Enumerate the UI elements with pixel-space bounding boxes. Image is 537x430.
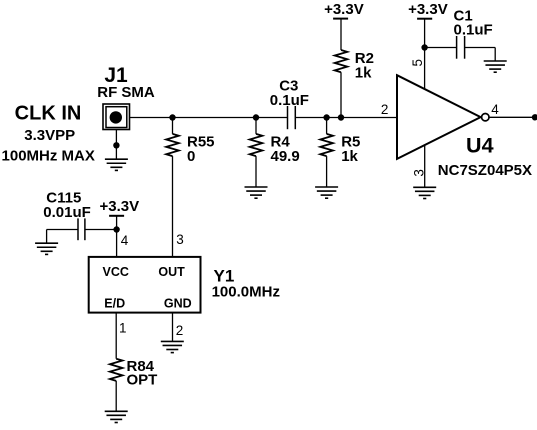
- svg-text:100MHz MAX: 100MHz MAX: [2, 148, 95, 165]
- ground at R84: [105, 411, 128, 422]
- wire R55 bottom to Y1 OUT pin 3: [172, 156, 174, 257]
- capacitor C3: [288, 106, 296, 129]
- wire Y1 GND pin 2: [172, 313, 174, 342]
- ground at Y1 GND: [161, 341, 184, 352]
- wire R84 bottom stem: [115, 381, 117, 411]
- svg-text:3: 3: [176, 232, 184, 247]
- junction at R2: [338, 114, 344, 120]
- wire J1 shield to ground: [115, 130, 117, 160]
- wire U4 pin 3 to ground: [424, 145, 426, 187]
- svg-text:GND: GND: [164, 297, 192, 311]
- svg-text:+3.3V: +3.3V: [324, 1, 364, 18]
- svg-text:1: 1: [119, 321, 127, 336]
- wire C1 ground drop: [494, 48, 496, 62]
- wire C115 power stem: [116, 216, 118, 230]
- svg-text:0: 0: [187, 148, 195, 165]
- resistor R55: [166, 134, 179, 156]
- wire C1 right: [465, 47, 496, 49]
- capacitor C115: [78, 218, 85, 240]
- wire R2 top stem: [340, 19, 342, 50]
- junction at R5: [323, 114, 329, 120]
- capacitor C1: [457, 36, 465, 59]
- wire R2 bottom stem: [340, 72, 342, 117]
- svg-text:4: 4: [121, 233, 129, 248]
- resistor R2: [335, 50, 348, 72]
- resistor R5: [320, 134, 333, 156]
- svg-text:100.0MHz: 100.0MHz: [212, 283, 280, 300]
- wire R55 top stem: [172, 118, 174, 134]
- svg-text:1k: 1k: [341, 148, 358, 165]
- svg-text:OUT: OUT: [158, 265, 185, 279]
- junction dot on J1 shield: [113, 142, 119, 148]
- wire R5 bottom stem: [326, 156, 328, 187]
- svg-text:+3.3V: +3.3V: [99, 198, 139, 215]
- inverter U4 output bubble: [482, 114, 489, 121]
- svg-text:NC7SZ04P5X: NC7SZ04P5X: [438, 162, 532, 179]
- power +3.3V at C115 / Y1 VCC: [99, 198, 139, 216]
- wire U4 output: [489, 116, 537, 118]
- wire U4 power stem: [424, 19, 426, 48]
- wire main net: C3 right plate to U4 input: [295, 117, 397, 119]
- svg-text:5: 5: [410, 59, 425, 67]
- resistor R84: [110, 359, 123, 381]
- svg-text:U4: U4: [466, 133, 494, 157]
- wire Y1 VCC pin 4: [116, 230, 118, 257]
- power +3.3V at R2: [324, 1, 364, 19]
- junction at VCC node: [113, 226, 119, 232]
- wire Y1 E/D pin 1: [115, 313, 117, 359]
- wire U4 pin 5: [424, 48, 426, 89]
- svg-text:3: 3: [411, 169, 426, 177]
- wire R5 top stem: [326, 118, 328, 134]
- wire R4 top stem: [255, 118, 257, 134]
- wire R4 bottom stem: [255, 156, 257, 187]
- junction at U4 pin5 / C1: [421, 44, 427, 50]
- oscillator Y1 box: [89, 257, 201, 313]
- svg-text:0.01uF: 0.01uF: [43, 204, 91, 221]
- svg-text:2: 2: [176, 323, 184, 338]
- svg-text:49.9: 49.9: [271, 148, 300, 165]
- svg-text:+3.3V: +3.3V: [408, 1, 448, 18]
- wire C1 left: [425, 47, 457, 49]
- junction at output edge: [532, 114, 537, 120]
- ground at R4: [245, 187, 268, 198]
- svg-text:0.1uF: 0.1uF: [270, 92, 309, 109]
- inverter U4 triangle: [397, 75, 481, 159]
- resistor R4: [250, 134, 263, 156]
- power +3.3V at U4 pin 5: [408, 1, 448, 19]
- svg-text:RF SMA: RF SMA: [97, 84, 155, 101]
- ground at C1: [484, 61, 507, 72]
- svg-text:E/D: E/D: [104, 297, 125, 311]
- svg-text:3.3VPP: 3.3VPP: [24, 127, 75, 144]
- svg-text:CLK IN: CLK IN: [15, 103, 82, 125]
- junction at R4: [253, 114, 259, 120]
- wire C115 left: [47, 229, 78, 231]
- wire main net: J1 to C3 left plate: [130, 117, 288, 119]
- svg-text:OPT: OPT: [127, 372, 158, 389]
- svg-text:4: 4: [491, 102, 499, 117]
- ground at U4 pin 3: [413, 187, 436, 198]
- connector J1 symbol: [103, 104, 130, 130]
- svg-text:0.1uF: 0.1uF: [454, 22, 493, 39]
- svg-text:2: 2: [381, 102, 389, 117]
- ground at R5: [315, 187, 338, 198]
- ground at C115: [35, 243, 58, 254]
- wire C115 right: [85, 229, 117, 231]
- svg-text:1k: 1k: [355, 65, 372, 82]
- junction at R55: [169, 114, 175, 120]
- ground at J1: [105, 159, 128, 170]
- svg-text:VCC: VCC: [102, 265, 128, 279]
- wire C115 ground drop: [46, 230, 48, 244]
